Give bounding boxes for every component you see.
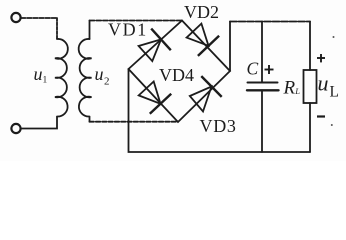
svg-text:VD4: VD4 [159,65,194,85]
svg-text:VD3: VD3 [200,116,237,136]
svg-text:2: 2 [104,76,110,88]
svg-text:1: 1 [43,76,48,86]
svg-text:u: u [318,71,329,96]
svg-text:u: u [34,64,43,84]
svg-text:C: C [247,59,259,79]
svg-text:L: L [294,86,300,96]
svg-text:VD2: VD2 [184,2,219,22]
svg-text:VD1: VD1 [108,20,148,40]
svg-text:R: R [283,78,296,99]
svg-text:L: L [330,84,339,101]
svg-text:u: u [95,64,104,84]
